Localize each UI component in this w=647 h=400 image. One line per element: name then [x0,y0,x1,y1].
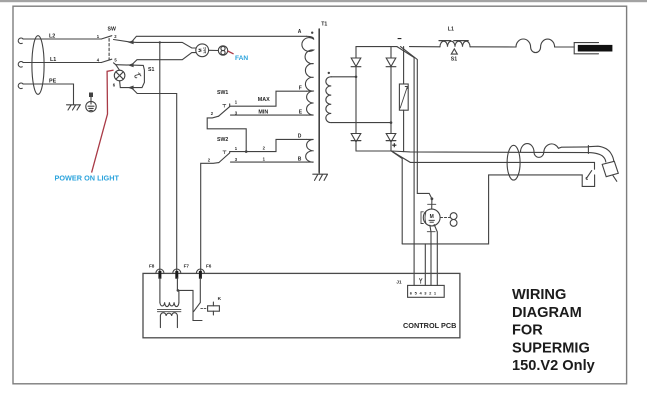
red pointer power on light [92,70,114,173]
wire secondary bottom to bridge [331,122,391,124]
bridge polarity marks minus plus [392,39,401,148]
connector J1 [408,285,445,297]
junction arrow node 2 [128,63,134,67]
svg-text:SW1: SW1 [217,90,228,96]
diode D4 [386,134,396,142]
svg-text:F8: F8 [149,264,155,269]
svg-text:S1: S1 [451,56,457,62]
svg-text:DIAGRAM: DIAGRAM [512,305,582,321]
transformer T1 primary winding F-E [307,91,314,115]
PCB transformer primary [160,302,179,306]
svg-text:L1: L1 [50,57,56,63]
PCB transformer right lead [178,290,180,302]
wire feed motor circle [423,209,440,226]
svg-text:PE: PE [49,78,57,84]
drive rollers [450,213,457,220]
svg-text:MAX: MAX [258,97,270,103]
plus output lower lead [391,151,588,153]
wire net A to transformer [131,36,306,42]
svg-text:FOR: FOR [512,323,543,339]
S1 contact symbol [135,73,141,78]
svg-text:M: M [430,214,434,220]
svg-text:CONTROL PCB: CONTROL PCB [403,321,456,330]
wire L1 hook [18,61,23,67]
svg-text:B: B [298,156,302,162]
svg-text:F6: F6 [206,264,212,269]
bridge rectifier right branch [390,47,392,151]
diode D3 [351,134,361,142]
svg-text:F7: F7 [184,264,190,269]
transformer T1 primary winding D-B [306,139,314,162]
svg-text:MIN: MIN [258,110,268,116]
wire motor to fan [209,49,219,51]
lamp top lead [116,65,120,71]
trigger pocket [582,175,594,187]
motor bottom leads to J1 [430,225,431,285]
fan blades symbol [218,46,227,55]
svg-text:J1: J1 [396,280,402,285]
wire SW2-3 to tap B [231,161,307,163]
motor gearbox brackets [421,212,423,224]
PCB transformer primary lead [159,278,161,303]
svg-text:SW: SW [108,26,116,32]
varistor RV [403,47,405,152]
wire secondary top to bridge [331,76,356,78]
cable grommet oval [32,36,44,95]
relay coil K [208,306,220,311]
SW mechanical link dashed [108,39,110,60]
wire PE [23,84,74,105]
switch SW pole 2 [101,59,112,62]
lamp bottom lead [120,81,132,88]
junction arrow node 1 [128,40,134,44]
svg-text:K: K [218,296,222,302]
PCB transformer core [157,310,181,312]
torch contact tip [602,161,618,176]
thermostat S1 triangle [451,49,457,54]
torch handle outline [574,43,598,54]
J1 key mark [419,279,422,284]
plus wire down [391,151,402,244]
transformer T1 primary winding A-F [302,36,314,91]
wire SW2-1 to tap D [230,139,307,151]
svg-text:D: D [298,134,302,140]
torch neck [587,146,589,154]
svg-text:654321: 654321 [410,290,439,295]
wire fan top feed [131,42,196,48]
terminal F7 [173,269,181,273]
wire L2 [23,38,101,40]
S1 thermal switch loop [116,64,132,66]
minus output to wire motor [401,47,432,199]
ground PE [67,105,81,110]
wire L2 hook [18,38,23,44]
diode D1 [351,58,361,66]
polarity dot secondary [328,72,330,74]
svg-text:L1: L1 [448,27,454,33]
SW2 detent mark [223,151,226,154]
wire SW1 MAX to tap F [230,91,307,106]
red pointer fan [228,51,234,54]
motor M 1AC text [198,46,435,222]
control PCB box [143,273,460,337]
title block text [512,287,596,374]
switch SW pole 1 [101,36,112,39]
junction arrow node 3 [128,86,134,90]
svg-text:SUPERMIG: SUPERMIG [512,340,590,356]
diode D2 [386,58,396,66]
svg-text:FAN: FAN [235,55,248,62]
relay contact blade [194,303,201,312]
wire lamp bottom to F7 [131,88,176,271]
minus output to J1 [397,47,414,286]
plus output wavy lead [521,144,589,158]
bridge rectifier left branch [355,47,357,151]
wire feed motor M= top lead [431,199,433,209]
transformer core [318,29,320,172]
cable grommet oval right [507,145,520,180]
PCB transformer secondary [160,313,177,316]
switch SW2 [219,152,230,163]
bridge minus rail [356,46,397,48]
core ground [313,172,328,180]
wire choke to torch [470,46,516,48]
terminal F6 [196,269,204,273]
fan motor M 1AC [196,44,209,57]
svg-text:1AC: 1AC [203,46,207,53]
SW1 detent mark [223,104,226,107]
svg-text:WIRING: WIRING [512,287,566,303]
polarity dot A [311,32,313,34]
svg-text:T1: T1 [321,22,327,28]
trigger feed wire [391,151,594,169]
terminal F8 [156,269,164,273]
svg-text:A: A [298,29,302,35]
svg-text:POWER ON LIGHT: POWER ON LIGHT [55,174,120,183]
trigger lever [586,171,592,180]
wire squiggle [516,39,555,53]
svg-text:150.V2 Only: 150.V2 Only [512,358,596,374]
L1 core bars [439,40,468,42]
wire J1 branch [424,244,426,286]
svg-text:S1: S1 [148,67,154,73]
torch electrode bar [578,45,613,52]
svg-text:SW2: SW2 [217,137,228,143]
top grey strip [0,0,647,2]
PCB secondary leads [160,316,177,328]
wire stub [613,175,617,181]
wire PE hook [18,83,23,89]
lamp circle [114,70,125,81]
L1 output choke [410,46,441,48]
wire F7 to relay common [177,278,202,321]
wire L1 [23,62,101,64]
bridge plus rail [356,150,391,152]
wire F6 to contact [199,278,201,303]
earth circle symbol [86,101,96,111]
svg-text:L2: L2 [49,33,55,39]
switch SW1 [219,104,230,116]
svg-text:F: F [299,86,302,92]
trigger return wire [402,175,582,244]
wire net A branch to F8 [159,42,161,271]
transformer secondary winding [326,77,331,123]
wire fan bottom feed [131,53,196,66]
wire SW1 MIN to tap E [231,114,307,116]
